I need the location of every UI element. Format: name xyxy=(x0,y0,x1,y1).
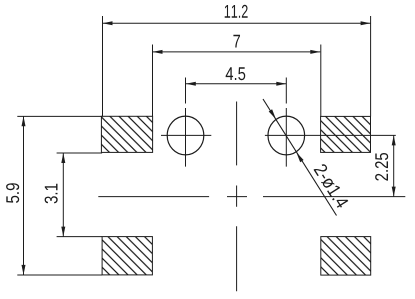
arrow 7 right xyxy=(310,50,320,54)
centerline vertical main xyxy=(236,102,238,292)
dimension line 7 xyxy=(153,51,321,53)
arrow leader upper xyxy=(269,109,276,119)
dimension line 11.2 xyxy=(103,22,371,24)
centerline horizontal middle xyxy=(98,196,405,198)
dim text 4.5 xyxy=(226,67,246,80)
arrow 2.25 top xyxy=(392,135,396,145)
dim text 2.25 xyxy=(375,153,388,181)
extension line notch bottom y236.6 xyxy=(57,236,103,238)
centerline vertical hole left xyxy=(185,78,187,167)
extension line notch top y153 xyxy=(57,152,103,154)
extension line bottom edge y275 xyxy=(17,274,102,276)
dimension line 2.25 xyxy=(393,135,395,196)
centerline horizontal through holes xyxy=(161,134,396,136)
extension line top edge y116.4 xyxy=(17,115,102,117)
hole circle left xyxy=(167,116,204,155)
arrow 5.9 bottom xyxy=(22,265,26,275)
arrow 3.1 bottom xyxy=(61,227,65,237)
leader text 2-dia1.4 xyxy=(313,163,349,209)
dimension line 4.5 xyxy=(186,83,286,85)
arrow 5.9 top xyxy=(22,116,26,126)
arrow leader lower xyxy=(296,152,303,162)
arrow 3.1 top xyxy=(61,153,65,163)
hatched pad top-left xyxy=(101,116,152,152)
dimension line 5.9 xyxy=(23,116,25,275)
dim text 5.9 xyxy=(6,183,19,203)
extension line left vertical x102.5 xyxy=(102,16,104,116)
dim text 3.1 xyxy=(45,184,58,204)
extension line x320.8 xyxy=(320,45,322,117)
arrow 11.2 right xyxy=(361,21,371,25)
centerline vertical hole right xyxy=(285,78,287,167)
dim text 11.2 xyxy=(225,5,248,18)
arrow 4.5 right xyxy=(276,82,286,86)
extension line right vertical x370.6 xyxy=(370,16,372,116)
hole circle right xyxy=(268,116,305,155)
arrow 7 left xyxy=(153,50,163,54)
hatched pad bottom-right xyxy=(321,237,371,276)
dimension line 3.1 xyxy=(62,153,64,237)
dim text 7 xyxy=(233,35,240,48)
hatched pad top-right xyxy=(321,116,371,152)
extension line x152.5 xyxy=(152,45,154,117)
hatched pad bottom-left xyxy=(102,237,152,275)
leader line 2-dia1.4 xyxy=(263,99,337,216)
arrow 2.25 bottom xyxy=(392,187,396,197)
arrow 4.5 left xyxy=(186,82,196,86)
arrow 11.2 left xyxy=(103,21,113,25)
